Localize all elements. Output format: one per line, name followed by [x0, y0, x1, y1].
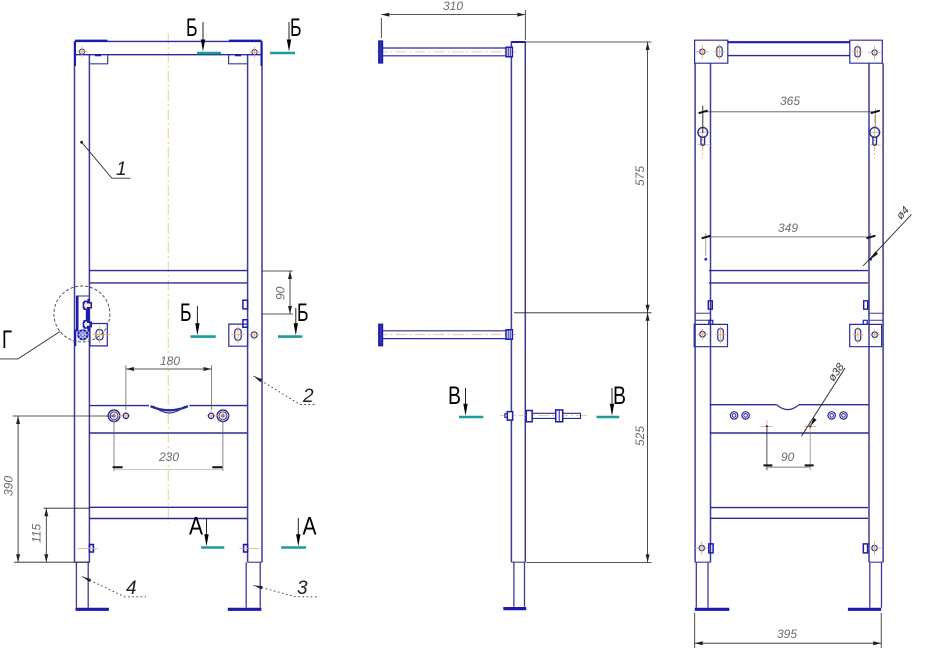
- dim 90: [262, 271, 293, 314]
- label d4: [863, 215, 912, 267]
- rail side view: [511, 41, 525, 562]
- side foot plate: [503, 607, 526, 610]
- hole 4mm left: [704, 258, 707, 261]
- svg-text:4: 4: [126, 578, 137, 599]
- rear plate holes left pair: [730, 412, 737, 419]
- dim 230: [114, 422, 223, 471]
- svg-text:Б: Б: [180, 299, 192, 327]
- dim 180: [126, 365, 212, 410]
- fixing bolt centerline: [500, 415, 590, 417]
- dim 395: [695, 613, 882, 648]
- svg-text:90: 90: [781, 450, 795, 464]
- dim 115: [44, 507, 91, 509]
- rear upper cross member: [709, 271, 868, 283]
- dim 349: [706, 233, 871, 256]
- label 3 leader: [254, 585, 318, 596]
- dim 310: [381, 10, 525, 40]
- foot plate right: [228, 608, 262, 611]
- corner bracket left: [89, 55, 107, 64]
- dim 575: [525, 41, 651, 43]
- rear mid plate right: [850, 324, 882, 346]
- rear lower cross member: [711, 508, 869, 519]
- rail left (pos.1): [74, 41, 76, 562]
- top rod nut: [506, 47, 512, 56]
- svg-text:2: 2: [302, 386, 314, 407]
- svg-text:230: 230: [158, 450, 179, 464]
- svg-text:Б: Б: [297, 299, 309, 327]
- svg-text:115: 115: [30, 524, 44, 543]
- rear top plate right: [850, 40, 883, 63]
- plate big hole right: [217, 410, 229, 422]
- top rod: [382, 48, 511, 56]
- label 2 leader: [254, 376, 317, 405]
- dim 90 rear: [766, 428, 768, 470]
- detail Г bold guide bar: [76, 296, 79, 332]
- leg right: [246, 562, 260, 607]
- plate hole crosshairs: [107, 408, 231, 423]
- svg-text:395: 395: [777, 627, 797, 641]
- fixing bolt: nut behind rail: [507, 412, 512, 421]
- hole 4mm right: [869, 258, 872, 261]
- lower cross member: [89, 507, 247, 518]
- top crossbar: [75, 40, 263, 42]
- leg left: [76, 562, 88, 607]
- svg-text:390: 390: [2, 476, 16, 496]
- fixing bolt: nut: [556, 410, 563, 422]
- detail Г link bar: [86, 310, 88, 321]
- svg-text:Б: Б: [186, 14, 198, 42]
- rear lower plate: [710, 404, 869, 406]
- fixing bolt: head at rail: [526, 411, 532, 422]
- svg-text:1: 1: [116, 159, 127, 180]
- detail Г washer bolt: [77, 329, 88, 340]
- svg-text:349: 349: [778, 221, 798, 235]
- rear tabs upper: [708, 301, 867, 309]
- crossbar hole left: [79, 49, 84, 54]
- fixing bolt: shaft: [532, 413, 556, 418]
- fixing bolt: end rod: [563, 413, 581, 418]
- label Г leader: [0, 332, 60, 359]
- rear legs: [696, 562, 708, 607]
- label 1 leader: [80, 141, 83, 144]
- side leg: [514, 562, 525, 607]
- svg-text:А: А: [303, 513, 317, 541]
- svg-text:Б: Б: [290, 14, 302, 42]
- corner bracket right: [229, 55, 248, 64]
- svg-text:А: А: [189, 513, 203, 541]
- pipe center marks: [761, 420, 773, 432]
- rail right (pos.2): [261, 41, 263, 562]
- detail Г tab upper (spool): [83, 301, 91, 309]
- mid rod flange: [379, 324, 383, 345]
- centerline front view: [167, 33, 169, 523]
- detail Г bold rail edge below: [74, 330, 76, 347]
- mid rod nut: [506, 330, 512, 339]
- top rod flange: [379, 41, 383, 63]
- detail Г tab lower (spool): [83, 321, 91, 328]
- detail Г assembly: top line across rail: [76, 295, 89, 297]
- rear top plate left: [695, 40, 728, 63]
- rails rear: [695, 63, 710, 562]
- svg-text:90: 90: [274, 286, 288, 300]
- dim 365: [702, 106, 704, 134]
- svg-text:В: В: [448, 382, 461, 410]
- rear top crossbar: [728, 41, 850, 43]
- mid rod centerline: [377, 334, 517, 336]
- svg-text:Г: Г: [2, 326, 12, 354]
- right plate bolt: [251, 332, 257, 338]
- plate small hole right: [208, 413, 213, 418]
- rear foot plates: [695, 608, 730, 611]
- adjuster bolt right rail: [244, 545, 248, 552]
- right anchor plate: [229, 324, 248, 346]
- left anchor plate: [90, 324, 107, 346]
- foot plate left: [76, 608, 109, 611]
- rear plate holes right pair: [828, 412, 835, 419]
- right rail tabs: [243, 300, 248, 309]
- plate small hole left: [123, 413, 128, 418]
- rear mid plate left: [694, 324, 727, 346]
- detail Г bold rail edge segment: [87, 299, 89, 332]
- keyhole left: [702, 115, 704, 158]
- rail joint lines: [695, 313, 884, 320]
- plate big hole left: [108, 410, 120, 422]
- plate notch: [151, 406, 189, 410]
- svg-text:3: 3: [297, 578, 308, 599]
- dim 525: [526, 561, 651, 563]
- label d38: [802, 368, 846, 436]
- top rod centerline: [377, 51, 517, 53]
- svg-text:575: 575: [633, 166, 647, 186]
- corner bold edges: [74, 41, 76, 66]
- svg-text:310: 310: [443, 0, 463, 13]
- dim 390: [13, 416, 113, 562]
- svg-text:В: В: [613, 382, 626, 410]
- detail circle Г: [54, 286, 110, 342]
- label 4 leader: [82, 577, 146, 597]
- svg-text:180: 180: [160, 354, 180, 368]
- svg-text:525: 525: [633, 426, 647, 446]
- crossbar hole right: [252, 50, 257, 55]
- svg-text:365: 365: [780, 94, 800, 108]
- lower mounting plate: [89, 405, 247, 407]
- keyhole right: [874, 115, 876, 158]
- rear adjuster bolts: [699, 545, 704, 550]
- adjuster bolt left rail: [89, 545, 93, 552]
- upper cross member: [89, 271, 247, 283]
- mid rod: [382, 331, 511, 339]
